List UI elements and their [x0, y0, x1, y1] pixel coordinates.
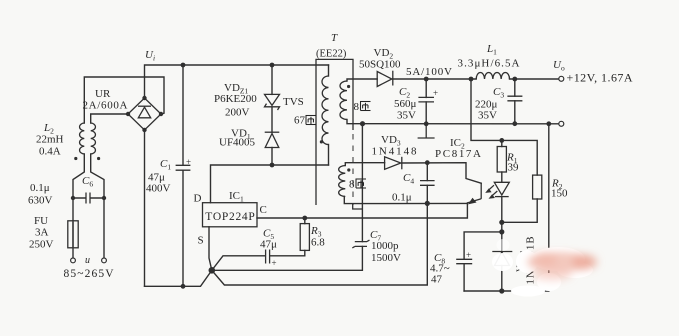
wire: clamp from Ui rail down [271, 65, 273, 94]
svg-text:47μ: 47μ [260, 239, 277, 251]
diode VD2 50SQ100 [377, 71, 393, 87]
svg-text:6.8: 6.8 [311, 237, 325, 249]
wire: bias top lead to VD3 line [345, 163, 384, 166]
LED of PC817A [494, 172, 509, 251]
svg-text:200V: 200V [225, 107, 250, 119]
svg-text:C: C [260, 204, 267, 216]
junction: feedback return on 0V rail [546, 121, 551, 126]
wire: feedback dropper from +12V raw node [471, 79, 537, 175]
wire: bridge bottom to primary ground rail [144, 130, 146, 286]
wire: choke right lead down to input terminal [91, 154, 104, 258]
svg-text:67: 67 [294, 115, 306, 127]
TVS diode VDZ1 P6KE200 [265, 94, 280, 110]
junction: source hub [209, 267, 216, 274]
svg-text:47: 47 [431, 274, 443, 286]
svg-text:+: + [272, 258, 277, 268]
svg-text:(EE22): (EE22) [316, 49, 347, 60]
capacitor C5 47u [266, 250, 277, 269]
label: zha glyph lower 8 turns [356, 179, 367, 188]
junction: C3 bottom on 0V rail [512, 121, 517, 126]
svg-text:0.1μ: 0.1μ [30, 182, 50, 194]
transformer primary winding 67 turns [320, 76, 329, 145]
label: zha glyph upper 8 turns [360, 102, 371, 111]
svg-text:35V: 35V [478, 110, 497, 122]
wire: TVS to VD1 [271, 107, 273, 132]
terminal: 0V output [559, 121, 564, 126]
wire: R2 bottom to LED cathode node [502, 199, 537, 222]
op IC1 TOP224P box [203, 203, 258, 227]
inductor L1 3.3uH/6.5A [476, 72, 509, 79]
wire: hub to S-return line and up to bias-bottom node [212, 203, 427, 285]
svg-text:630V: 630V [28, 195, 53, 207]
svg-text:FU: FU [34, 215, 48, 227]
fuse FU 3A 250V [68, 221, 78, 258]
svg-text:D: D [194, 193, 202, 205]
photon arrows from LED to transistor [485, 185, 497, 199]
junction: C8 branch [499, 229, 504, 234]
svg-text:+12V, 1.67A: +12V, 1.67A [567, 71, 633, 85]
wire: C7 top to 0V rail (Y-cap link) [361, 124, 363, 242]
wire: +12V line after L1 [510, 78, 559, 80]
svg-text:560μ: 560μ [394, 98, 417, 110]
junction: Y-link on 0V rail [360, 121, 365, 126]
terminal: AC input right [102, 258, 107, 263]
wire: secondary top lead to VD2 line [347, 79, 377, 81]
junction: bias-bottom / C4 / S-return [425, 201, 430, 206]
wire: small jog bias line to Y-link [353, 204, 363, 209]
junction: R1 top [499, 138, 504, 143]
wire: U_i top rail from bridge top to transformer primary [145, 65, 329, 98]
bridge rectifier UR [126, 96, 163, 132]
junction: Ui rail / clamp [270, 63, 275, 68]
svg-text:1000p: 1000p [371, 240, 399, 252]
junction: Ui rail / C1 [181, 63, 186, 68]
bias winding 8 turns [339, 166, 351, 197]
svg-text:+: + [466, 250, 471, 260]
capacitor C3 220u 35V [507, 79, 522, 124]
svg-text:1N4148: 1N4148 [372, 146, 418, 158]
resistor R2 150 [533, 175, 542, 199]
wire: VD3 cathode to opto collector [402, 163, 481, 184]
svg-text:5A/100V: 5A/100V [406, 66, 452, 78]
svg-text:T: T [331, 32, 338, 44]
inductor L2 common-mode choke [74, 123, 100, 160]
junction: zener anode on return line [499, 288, 504, 293]
resistor R1 39 [497, 140, 506, 172]
junction: C2 bottom on 0V rail [424, 121, 429, 126]
wire: secondary bottom lead to 0V rail [347, 120, 363, 124]
svg-text:85~265V: 85~265V [64, 268, 115, 280]
junction: LED cathode / R2 [499, 220, 504, 225]
wire: hub to C7 bottom [212, 246, 363, 270]
junction: clamp / drain line [270, 163, 275, 168]
junction: C1 / bottom rail [181, 284, 186, 289]
svg-text:35V: 35V [397, 110, 416, 122]
wire: VD1 to drain line [271, 148, 273, 166]
watermark-removal white blobs [492, 239, 593, 297]
svg-text:UF4005: UF4005 [219, 137, 256, 149]
junction: C4 top [425, 160, 430, 165]
zener diode VDZ2 1N5241B [492, 252, 512, 292]
capacitor C6 0.1u 630V [71, 193, 106, 204]
svg-text:UR: UR [95, 88, 111, 100]
wire: primary bottom lead to drain [328, 145, 330, 166]
wire: C5 to R3 bottom [270, 250, 305, 255]
wire: primary bottom rail [145, 270, 212, 286]
op IC2 PC817A phototransistor [467, 183, 481, 205]
svg-text:22mH: 22mH [36, 134, 64, 146]
svg-text:8: 8 [349, 179, 355, 191]
wire: hub to C5 R3 branch [212, 256, 265, 270]
diode VD3 1N4148 [385, 157, 402, 170]
svg-text:150: 150 [551, 188, 568, 200]
wire: VD2 cathode to L1 [393, 78, 476, 80]
wire: AC neutral from bridge left corner to choke top-right [91, 114, 128, 123]
capacitor C4 0.1u [420, 163, 435, 204]
svg-text:+: + [186, 157, 191, 167]
svg-text:39: 39 [508, 162, 520, 174]
svg-text:u: u [85, 255, 90, 266]
svg-text:P6KE200: P6KE200 [214, 93, 257, 105]
svg-text:0.4A: 0.4A [39, 146, 61, 158]
wire: C pin line to optocoupler emitter [257, 203, 467, 218]
ground stub on 0V rail [418, 124, 435, 138]
junction: R3 top on C line [302, 216, 307, 221]
capacitor C7 1000p 1500V [352, 240, 369, 248]
capacitor C1 47u 400V [176, 65, 191, 286]
svg-text:TVS: TVS [283, 96, 304, 108]
wire: C8 branch [464, 232, 502, 259]
svg-text:S: S [198, 235, 204, 247]
capacitor C8 4.7~47u [456, 250, 472, 291]
svg-text:+: + [433, 88, 438, 98]
junction: VD2 node to feedback dropper [469, 77, 474, 82]
wire: 0V rail [363, 123, 559, 125]
svg-text:1500V: 1500V [371, 252, 401, 264]
svg-text:2A/600A: 2A/600A [83, 100, 128, 112]
capacitor C2 560u 35V [418, 79, 438, 124]
secondary winding 8 turns (power) [340, 81, 350, 120]
junction: C2 top [424, 77, 429, 82]
label: zha glyph for 67 turns [306, 116, 317, 125]
diode VD1 UF4005 [265, 132, 280, 147]
terminal: +12V output [559, 76, 564, 81]
wire: S pin to source hub [209, 227, 212, 270]
wire: drain line from D pin to primary [211, 165, 329, 203]
svg-text:50SQ100: 50SQ100 [359, 59, 401, 71]
watermark pink smudge [527, 252, 598, 281]
wire: bias bottom lead to S-return line [344, 197, 467, 204]
svg-text:0.1μ: 0.1μ [392, 192, 412, 204]
transformer T outline box [316, 59, 353, 205]
svg-text:3.3μH/6.5A: 3.3μH/6.5A [458, 58, 520, 70]
resistor R3 6.8 [300, 224, 309, 251]
wire: secondary feedback ground return [464, 124, 549, 291]
wire: choke left lead down to fuse branch [73, 154, 84, 221]
terminal: AC input left [71, 258, 76, 263]
wire: R3 top lead [304, 218, 306, 224]
svg-text:TOP224P: TOP224P [205, 211, 255, 223]
svg-text:250V: 250V [29, 239, 54, 251]
svg-text:PC817A: PC817A [435, 148, 481, 160]
svg-text:400V: 400V [146, 183, 171, 195]
junction: C3 top [512, 77, 517, 82]
wire: AC live from choke top-left over bridge to bridge right corner [84, 77, 164, 123]
wire: primary top lead [328, 65, 330, 76]
svg-text:3A: 3A [35, 227, 49, 239]
svg-text:8: 8 [354, 101, 360, 113]
